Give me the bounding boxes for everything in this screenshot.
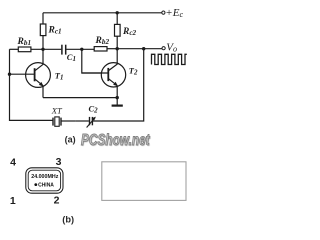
svg-text:Rb2: Rb2 bbox=[95, 36, 110, 46]
svg-text:(a): (a) bbox=[65, 134, 76, 144]
svg-text:(b): (b) bbox=[62, 214, 74, 224]
svg-text:24.000MHz: 24.000MHz bbox=[31, 174, 58, 180]
svg-text:T1: T1 bbox=[55, 71, 64, 82]
svg-text:Rb1: Rb1 bbox=[17, 37, 32, 47]
svg-text:C2: C2 bbox=[89, 104, 99, 115]
svg-text:C1: C1 bbox=[67, 52, 76, 63]
svg-text:CHINA: CHINA bbox=[38, 182, 54, 188]
svg-text:Vo: Vo bbox=[166, 42, 177, 54]
svg-text:Rc1: Rc1 bbox=[48, 26, 62, 36]
svg-text:XT: XT bbox=[51, 106, 63, 116]
svg-text:4: 4 bbox=[10, 156, 16, 168]
svg-text:1: 1 bbox=[10, 195, 16, 207]
svg-text:T2: T2 bbox=[129, 66, 138, 77]
svg-text:Rc2: Rc2 bbox=[122, 27, 137, 37]
svg-text:3: 3 bbox=[56, 156, 62, 168]
svg-text:2: 2 bbox=[54, 195, 60, 207]
svg-text:+Ec: +Ec bbox=[165, 7, 183, 19]
